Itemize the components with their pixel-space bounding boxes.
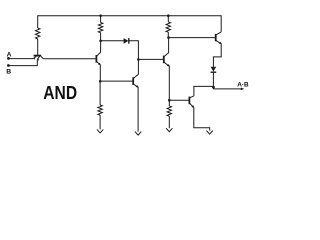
transistor Q2 (phase splitter) [96,41,100,82]
wire node X to D1 [101,40,124,42]
node X (Q2 collector / R2 / D1) [99,40,102,43]
ground g2 [135,132,141,136]
resistor R3 [166,16,170,38]
diode D1 [124,38,129,44]
wire J1 to Q4 base [138,58,163,60]
wire J3 to Q5 base [169,99,189,101]
node B terminal [7,64,10,67]
node rail junction at R2 [99,14,102,17]
transistor Q5 (totem-pole bottom) [189,96,209,131]
ground g4 [207,131,213,135]
svg-text:A·B: A·B [237,81,249,88]
wire J1 down to Q3 collector [137,60,139,75]
wire output [213,88,241,90]
wire node Z to Q6 base [169,37,216,39]
ground g3 [166,128,172,132]
wire input B [8,60,37,66]
node J2 (output) [212,86,215,89]
wire node Y to Q3 base [100,80,133,82]
wire J2 to Q5 collector [194,86,214,96]
svg-text:A: A [7,52,12,59]
wire D2 to output node [212,72,214,89]
node Z (R3 / Q4 collector / Q6 base) [167,36,170,39]
node J1 (Q4 base / Q3 collector) [137,58,140,61]
wire VCC top rail [38,16,222,32]
transistor Q3 [133,74,138,131]
node J3 (Q4 emitter / Q5 base / R5) [168,99,171,102]
transistor Q6 (totem-pole top) [213,32,221,67]
node rail junction at R3 [167,14,170,17]
wire D1 to J1 [129,41,139,60]
node Y (Q2 emitter / R4 / Q3 base) [99,80,102,83]
resistor R2 [98,16,102,41]
resistor R5 [167,100,171,128]
resistor R4 [98,81,102,129]
node A terminal [7,57,10,60]
diode D2 [211,67,217,72]
svg-text:B: B [6,68,11,75]
transistor Q1 (multi-emitter input) [33,56,43,61]
wire input A [9,58,34,60]
resistor R1 [36,28,40,39]
svg-text:AND: AND [43,82,77,103]
ground g1 [97,129,103,133]
wire Q1 collector to Q2 base [43,58,96,60]
wire R1 to Q1 base [37,39,39,55]
output arrowhead [241,88,244,91]
transistor Q4 [164,38,170,101]
